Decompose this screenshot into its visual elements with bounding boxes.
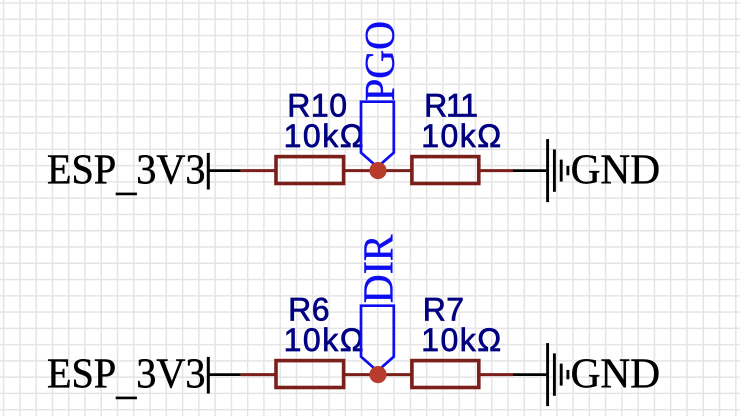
svg-text:10kΩ: 10kΩ — [421, 118, 503, 154]
wire — [343, 169, 412, 172]
svg-text:GND: GND — [571, 147, 661, 194]
wire — [479, 373, 514, 376]
resistor R6 — [276, 291, 365, 387]
wire — [343, 373, 412, 376]
power port ESP_3V3 (bottom) — [47, 351, 241, 404]
power port GND (top) — [513, 139, 660, 202]
junction node DIR — [369, 366, 386, 383]
power port ESP_3V3 (top) — [47, 147, 241, 200]
power port GND (bottom) — [513, 343, 660, 406]
net label DIR — [355, 234, 402, 371]
junction node PGO — [369, 162, 386, 179]
svg-text:DIR: DIR — [355, 234, 402, 303]
wire — [479, 169, 514, 172]
resistor R7 — [412, 291, 503, 387]
wire — [241, 373, 276, 376]
resistor R10 — [276, 87, 365, 183]
wire — [241, 169, 276, 172]
svg-text:PGO: PGO — [357, 21, 404, 101]
net label PGO — [357, 21, 404, 167]
svg-text:ESP_3V3: ESP_3V3 — [47, 351, 206, 404]
svg-text:10kΩ: 10kΩ — [421, 322, 503, 358]
svg-text:GND: GND — [571, 351, 661, 398]
svg-text:ESP_3V3: ESP_3V3 — [47, 147, 206, 200]
svg-text:10kΩ: 10kΩ — [284, 322, 366, 358]
svg-text:10kΩ: 10kΩ — [284, 118, 366, 154]
resistor R11 — [412, 87, 503, 183]
